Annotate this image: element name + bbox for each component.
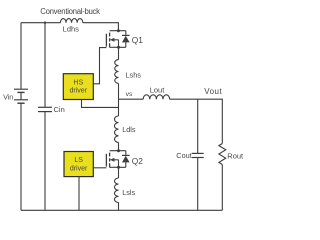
transistor Q1 (106, 31, 125, 48)
svg-text:Lsls: Lsls (122, 188, 135, 197)
svg-text:LS: LS (74, 157, 83, 164)
wire Q1 source down to Lshs (118, 47, 120, 59)
svg-text:Conventional-buck: Conventional-buck (40, 7, 100, 16)
transistor Q1 arrow (110, 38, 115, 42)
wire LS driver gate wire to Q2 (93, 167, 106, 169)
capacitor Cin (38, 107, 52, 111)
node Q1 source junction (117, 46, 120, 49)
LS driver box U2 (64, 152, 93, 177)
svg-text:HS: HS (73, 79, 83, 86)
wire Lsls to ground rail (118, 202, 120, 210)
wire Cout branch bottom (197, 158, 199, 211)
node Q2 source junction (117, 166, 120, 169)
svg-text:Vin: Vin (3, 95, 13, 102)
node Cin top junction (44, 22, 46, 24)
diode D2 (body diode of Q2) (122, 151, 130, 168)
wire left rail (Vin branch top) (20, 23, 22, 89)
inductor Ldls (114, 116, 118, 142)
svg-text:Lout: Lout (150, 86, 166, 95)
svg-text:Q2: Q2 (132, 156, 144, 166)
svg-text:vs: vs (126, 91, 133, 98)
svg-text:Q1: Q1 (132, 35, 144, 45)
transistor Q2 arrow (110, 158, 115, 162)
inductor Lout (143, 95, 169, 99)
wire Cout branch top (197, 99, 199, 153)
inductor Ldhs (60, 19, 82, 23)
wire top rail right (83, 23, 119, 31)
svg-text:driver: driver (70, 165, 88, 172)
wire Ldls to Q2 drain (118, 142, 120, 150)
node Q2 drain junction (117, 149, 120, 152)
svg-text:Rout: Rout (227, 151, 244, 160)
svg-text:Cin: Cin (54, 105, 65, 114)
wire Cin branch top (44, 23, 46, 107)
diode D1 (body diode of Q1) (122, 31, 130, 48)
wire bottom ground rail (21, 209, 222, 211)
transistor Q2 (106, 151, 125, 168)
svg-text:Vout: Vout (204, 87, 222, 96)
wire HS driver return to vs (82, 100, 119, 108)
HS driver box U1 (63, 74, 93, 100)
battery Vin (14, 89, 28, 103)
svg-text:Cout: Cout (176, 151, 191, 160)
wire Vout rail (170, 99, 223, 143)
inductor Lshs (115, 60, 119, 84)
wire HS driver gate wire to Q1 (93, 48, 106, 84)
diode D2 arrow body (122, 156, 130, 163)
wire left rail bottom (20, 103, 22, 210)
wire top rail left (21, 22, 60, 24)
wire Lshs to vs node (118, 83, 120, 116)
diode D1 arrow body (122, 36, 130, 43)
resistor Rout (219, 144, 226, 165)
svg-text:Lshs: Lshs (126, 71, 142, 80)
wire Rout bottom (221, 165, 223, 211)
wire Q2 source down to Lsls (118, 167, 120, 178)
node Q1 drain junction (117, 29, 120, 32)
wire LS driver to ground (78, 177, 80, 211)
svg-text:Ldhs: Ldhs (63, 24, 80, 33)
svg-text:driver: driver (70, 88, 88, 95)
capacitor Cout (192, 153, 204, 157)
inductor Lsls (114, 178, 118, 202)
wire vs rail (119, 98, 144, 100)
wire Cin branch bottom (44, 112, 46, 211)
svg-text:Ldls: Ldls (122, 125, 136, 134)
